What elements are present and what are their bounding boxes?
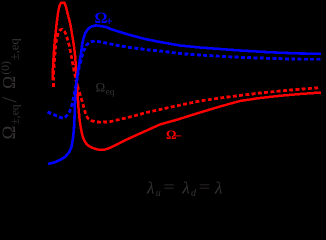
svg-text:−: − bbox=[175, 129, 182, 143]
svg-text:±,eq: ±,eq bbox=[10, 104, 22, 124]
svg-text:=: = bbox=[199, 179, 211, 196]
svg-text:d: d bbox=[191, 188, 197, 199]
svg-text:+: + bbox=[106, 14, 113, 29]
svg-text:λ: λ bbox=[181, 179, 189, 198]
svg-text:/: / bbox=[0, 97, 21, 103]
svg-text:(0): (0) bbox=[0, 61, 12, 75]
svg-text:Ω: Ω bbox=[0, 76, 19, 89]
svg-text:λ: λ bbox=[214, 179, 222, 198]
curve Omega+ solid blue bbox=[48, 25, 321, 164]
curve Omega- solid red bbox=[53, 3, 322, 150]
svg-text:u: u bbox=[156, 188, 161, 199]
curve Omega- dashed red bbox=[54, 29, 321, 122]
x axis label lambda_u = lambda_d = lambda bbox=[146, 179, 222, 199]
svg-text:=: = bbox=[163, 179, 175, 196]
curve Omega+ dashed blue bbox=[48, 41, 323, 118]
svg-text:±,eq: ±,eq bbox=[8, 38, 22, 61]
svg-text:eq: eq bbox=[106, 87, 115, 97]
svg-text:Ω: Ω bbox=[96, 79, 106, 94]
y axis label Omega+-,eq / Omega(0)+-,eq (rotated) bbox=[0, 38, 22, 140]
svg-text:λ: λ bbox=[146, 179, 154, 198]
svg-text:Ω: Ω bbox=[0, 126, 20, 140]
